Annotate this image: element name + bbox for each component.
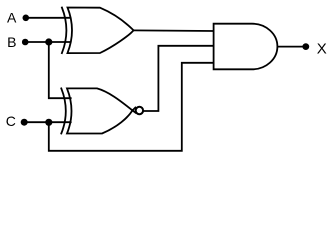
svg-text:X: X [317, 41, 327, 58]
svg-text:C: C [6, 113, 16, 129]
svg-text:B: B [7, 34, 16, 50]
svg-text:A: A [7, 9, 17, 25]
